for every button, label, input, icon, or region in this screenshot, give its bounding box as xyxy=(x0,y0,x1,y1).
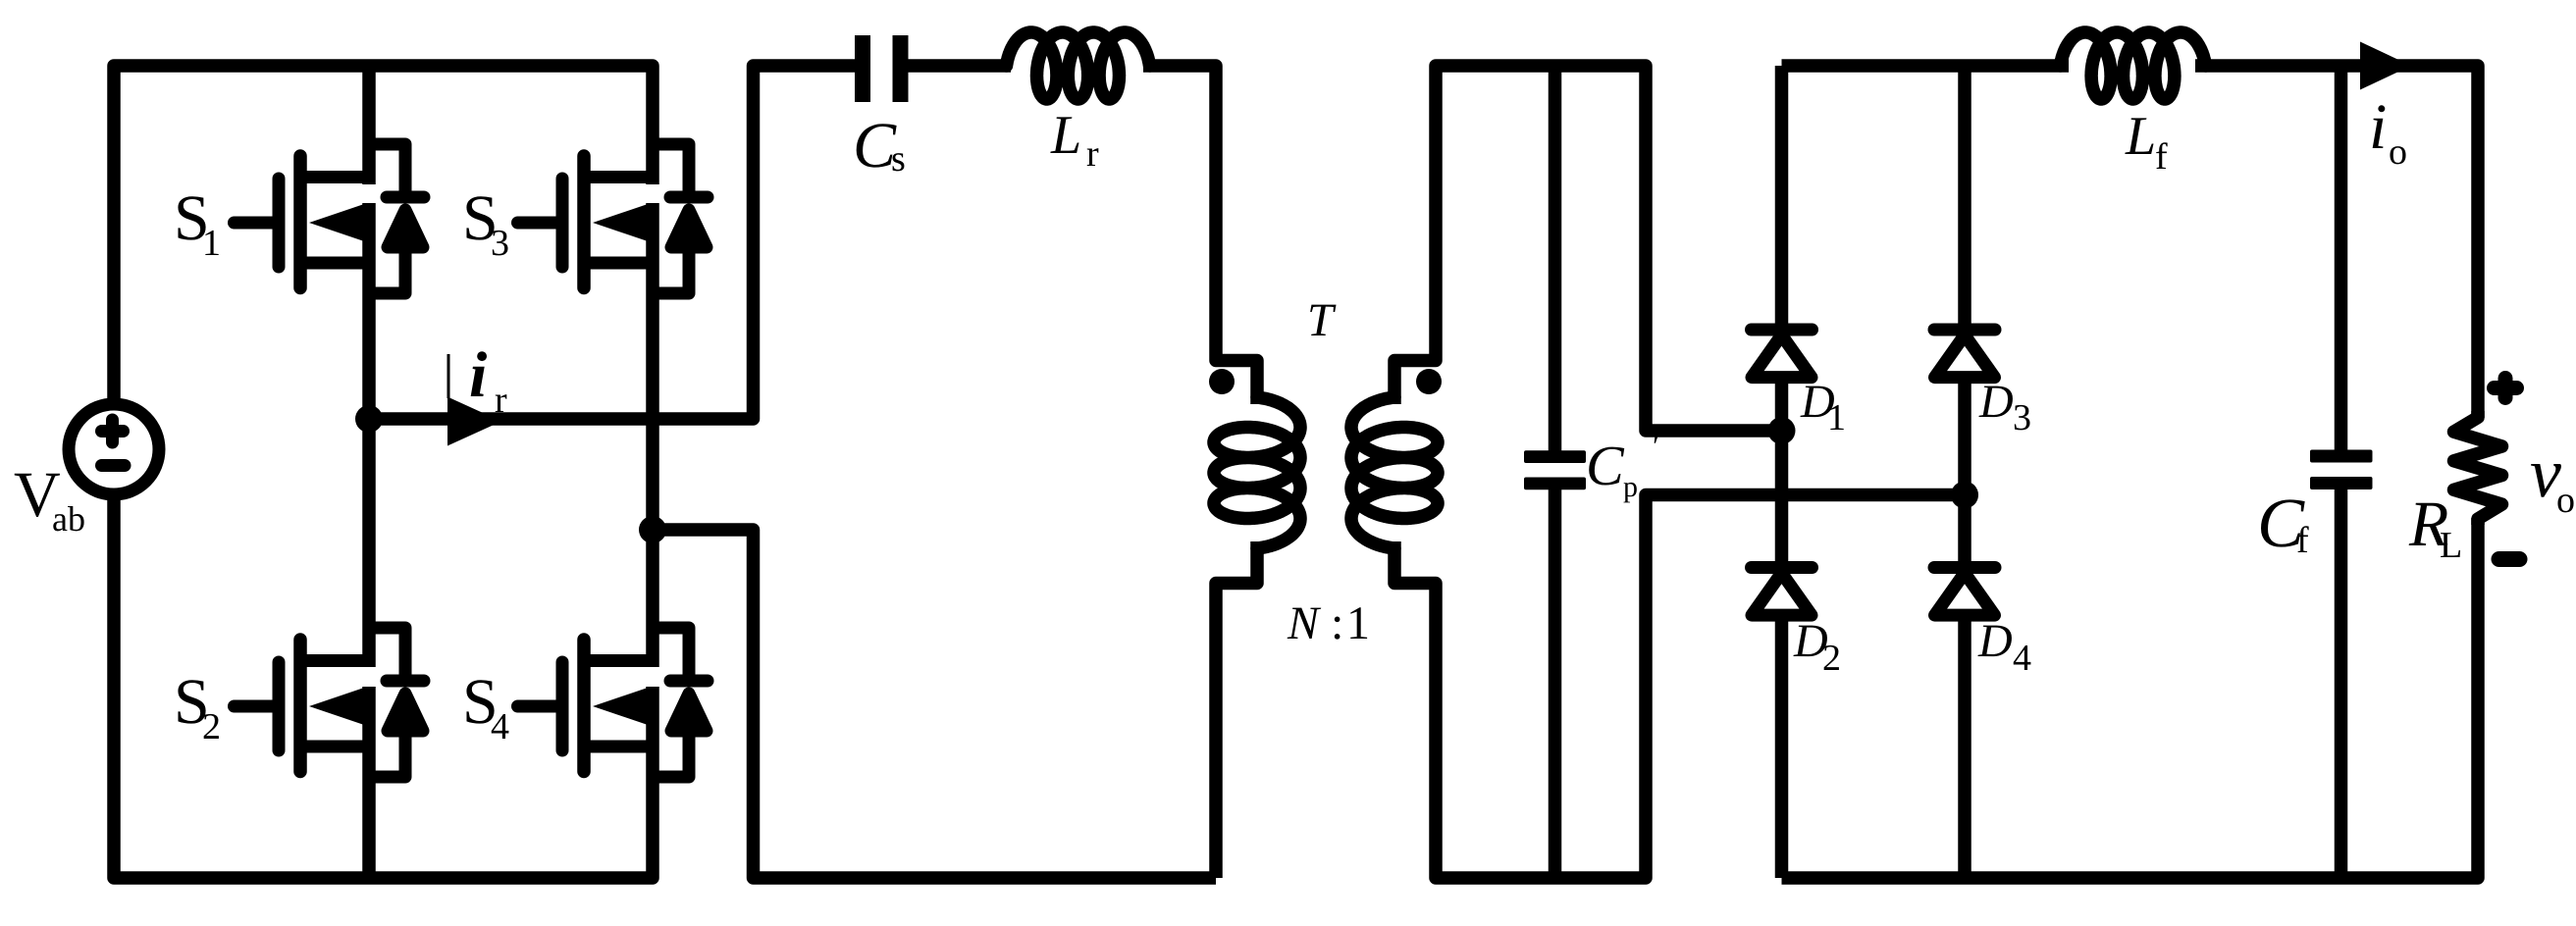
wire: Lf to output plus rail xyxy=(2195,66,2478,418)
label Vab xyxy=(15,474,60,517)
wire: output bottom rail xyxy=(1782,518,2479,878)
wire: bottom rail of input bridge xyxy=(114,499,653,878)
wire: D1-D2 midpoint rail xyxy=(1775,377,1789,569)
label Lr xyxy=(1050,117,1078,153)
current arrow ir xyxy=(447,354,502,446)
wire: secondary bottom to rectifier D3-D4 node xyxy=(1394,495,1965,879)
label Cp xyxy=(1589,447,1624,486)
transformer secondary phase dot xyxy=(1416,369,1442,394)
label D3 xyxy=(1978,386,2012,418)
diode D1 xyxy=(1752,330,1813,378)
output plus polarity mark xyxy=(2495,379,2517,398)
wire: S2 source rail to bottom xyxy=(362,687,376,878)
label Cf xyxy=(2261,499,2305,546)
wire: transformer primary bottom return xyxy=(1216,541,1257,878)
voltage source Vab xyxy=(69,404,159,494)
capacitor Cp plates xyxy=(1524,450,1586,489)
wire: D1 cathode rail xyxy=(1775,66,1789,324)
capacitor Cs xyxy=(855,35,909,102)
transformer primary phase dot xyxy=(1209,369,1235,394)
wire: rectifier top rail to Lf xyxy=(1782,59,2070,73)
wire: node b return to bottom tank rail xyxy=(653,530,1216,878)
output minus polarity mark xyxy=(2499,551,2520,567)
diode D3 xyxy=(1934,330,1995,378)
diode D4 xyxy=(1934,568,1995,616)
label RL xyxy=(2409,503,2448,545)
label T xyxy=(1310,305,1336,335)
wire: S1 source rail down to node a xyxy=(362,203,376,419)
current arrow io xyxy=(2360,42,2411,90)
junction dot rectifier input bottom xyxy=(1951,482,1978,509)
transistor S1 xyxy=(235,144,425,293)
transformer T primary winding xyxy=(1214,397,1300,548)
capacitor Cf plates xyxy=(2310,450,2373,490)
transformer T secondary winding xyxy=(1351,397,1438,548)
label S2 xyxy=(178,680,205,723)
capacitor Cp lower lead xyxy=(1549,489,1562,878)
capacitor Cf lower lead xyxy=(2335,488,2348,878)
inductor Lf xyxy=(2061,32,2206,99)
transistor S4 xyxy=(518,628,709,777)
wire: secondary top to rectifier D1 node xyxy=(1394,66,1782,431)
label D2 xyxy=(1793,626,1826,657)
wire: S3 source rail down to node b xyxy=(646,203,659,530)
label D1 xyxy=(1800,386,1833,418)
resistor RL zigzag xyxy=(2454,411,2502,525)
wire: D3-D4 midpoint rail xyxy=(1958,377,1971,569)
transistor S3 xyxy=(518,144,709,293)
label N:1 xyxy=(1288,608,1322,639)
wire: S2 drain rail from node a xyxy=(362,419,376,667)
diode D2 xyxy=(1752,568,1813,616)
wire: D2 anode rail xyxy=(1775,614,1789,878)
inductor Lr xyxy=(1007,32,1150,99)
wire: S1 drain rail xyxy=(362,66,376,184)
label D4 xyxy=(1977,626,2011,657)
wire: Cs to Lr xyxy=(907,59,1011,73)
node b junction dot xyxy=(639,516,666,543)
label ir xyxy=(471,351,487,396)
label Lf xyxy=(2125,118,2153,154)
label Cs xyxy=(857,124,897,167)
label vo xyxy=(2531,464,2561,497)
label S4 xyxy=(466,680,494,723)
transistor S2 xyxy=(235,628,425,777)
capacitor Cf upper lead xyxy=(2335,66,2348,451)
wire: D4 anode rail xyxy=(1958,614,1971,878)
label io xyxy=(2373,105,2386,148)
wire: top rail of input bridge xyxy=(114,66,653,399)
capacitor Cp upper lead xyxy=(1549,66,1562,451)
junction dot rectifier input top xyxy=(1768,417,1796,444)
wire: D3 cathode rail xyxy=(1958,66,1971,324)
node a junction dot xyxy=(355,405,383,433)
wire: resonant current path from node a up to Cs xyxy=(369,66,857,419)
wire: S4 drain rail from node b xyxy=(646,530,659,667)
label S3 xyxy=(466,196,494,239)
label S1 xyxy=(178,196,205,239)
wire: Lr to transformer primary top xyxy=(1143,66,1257,404)
